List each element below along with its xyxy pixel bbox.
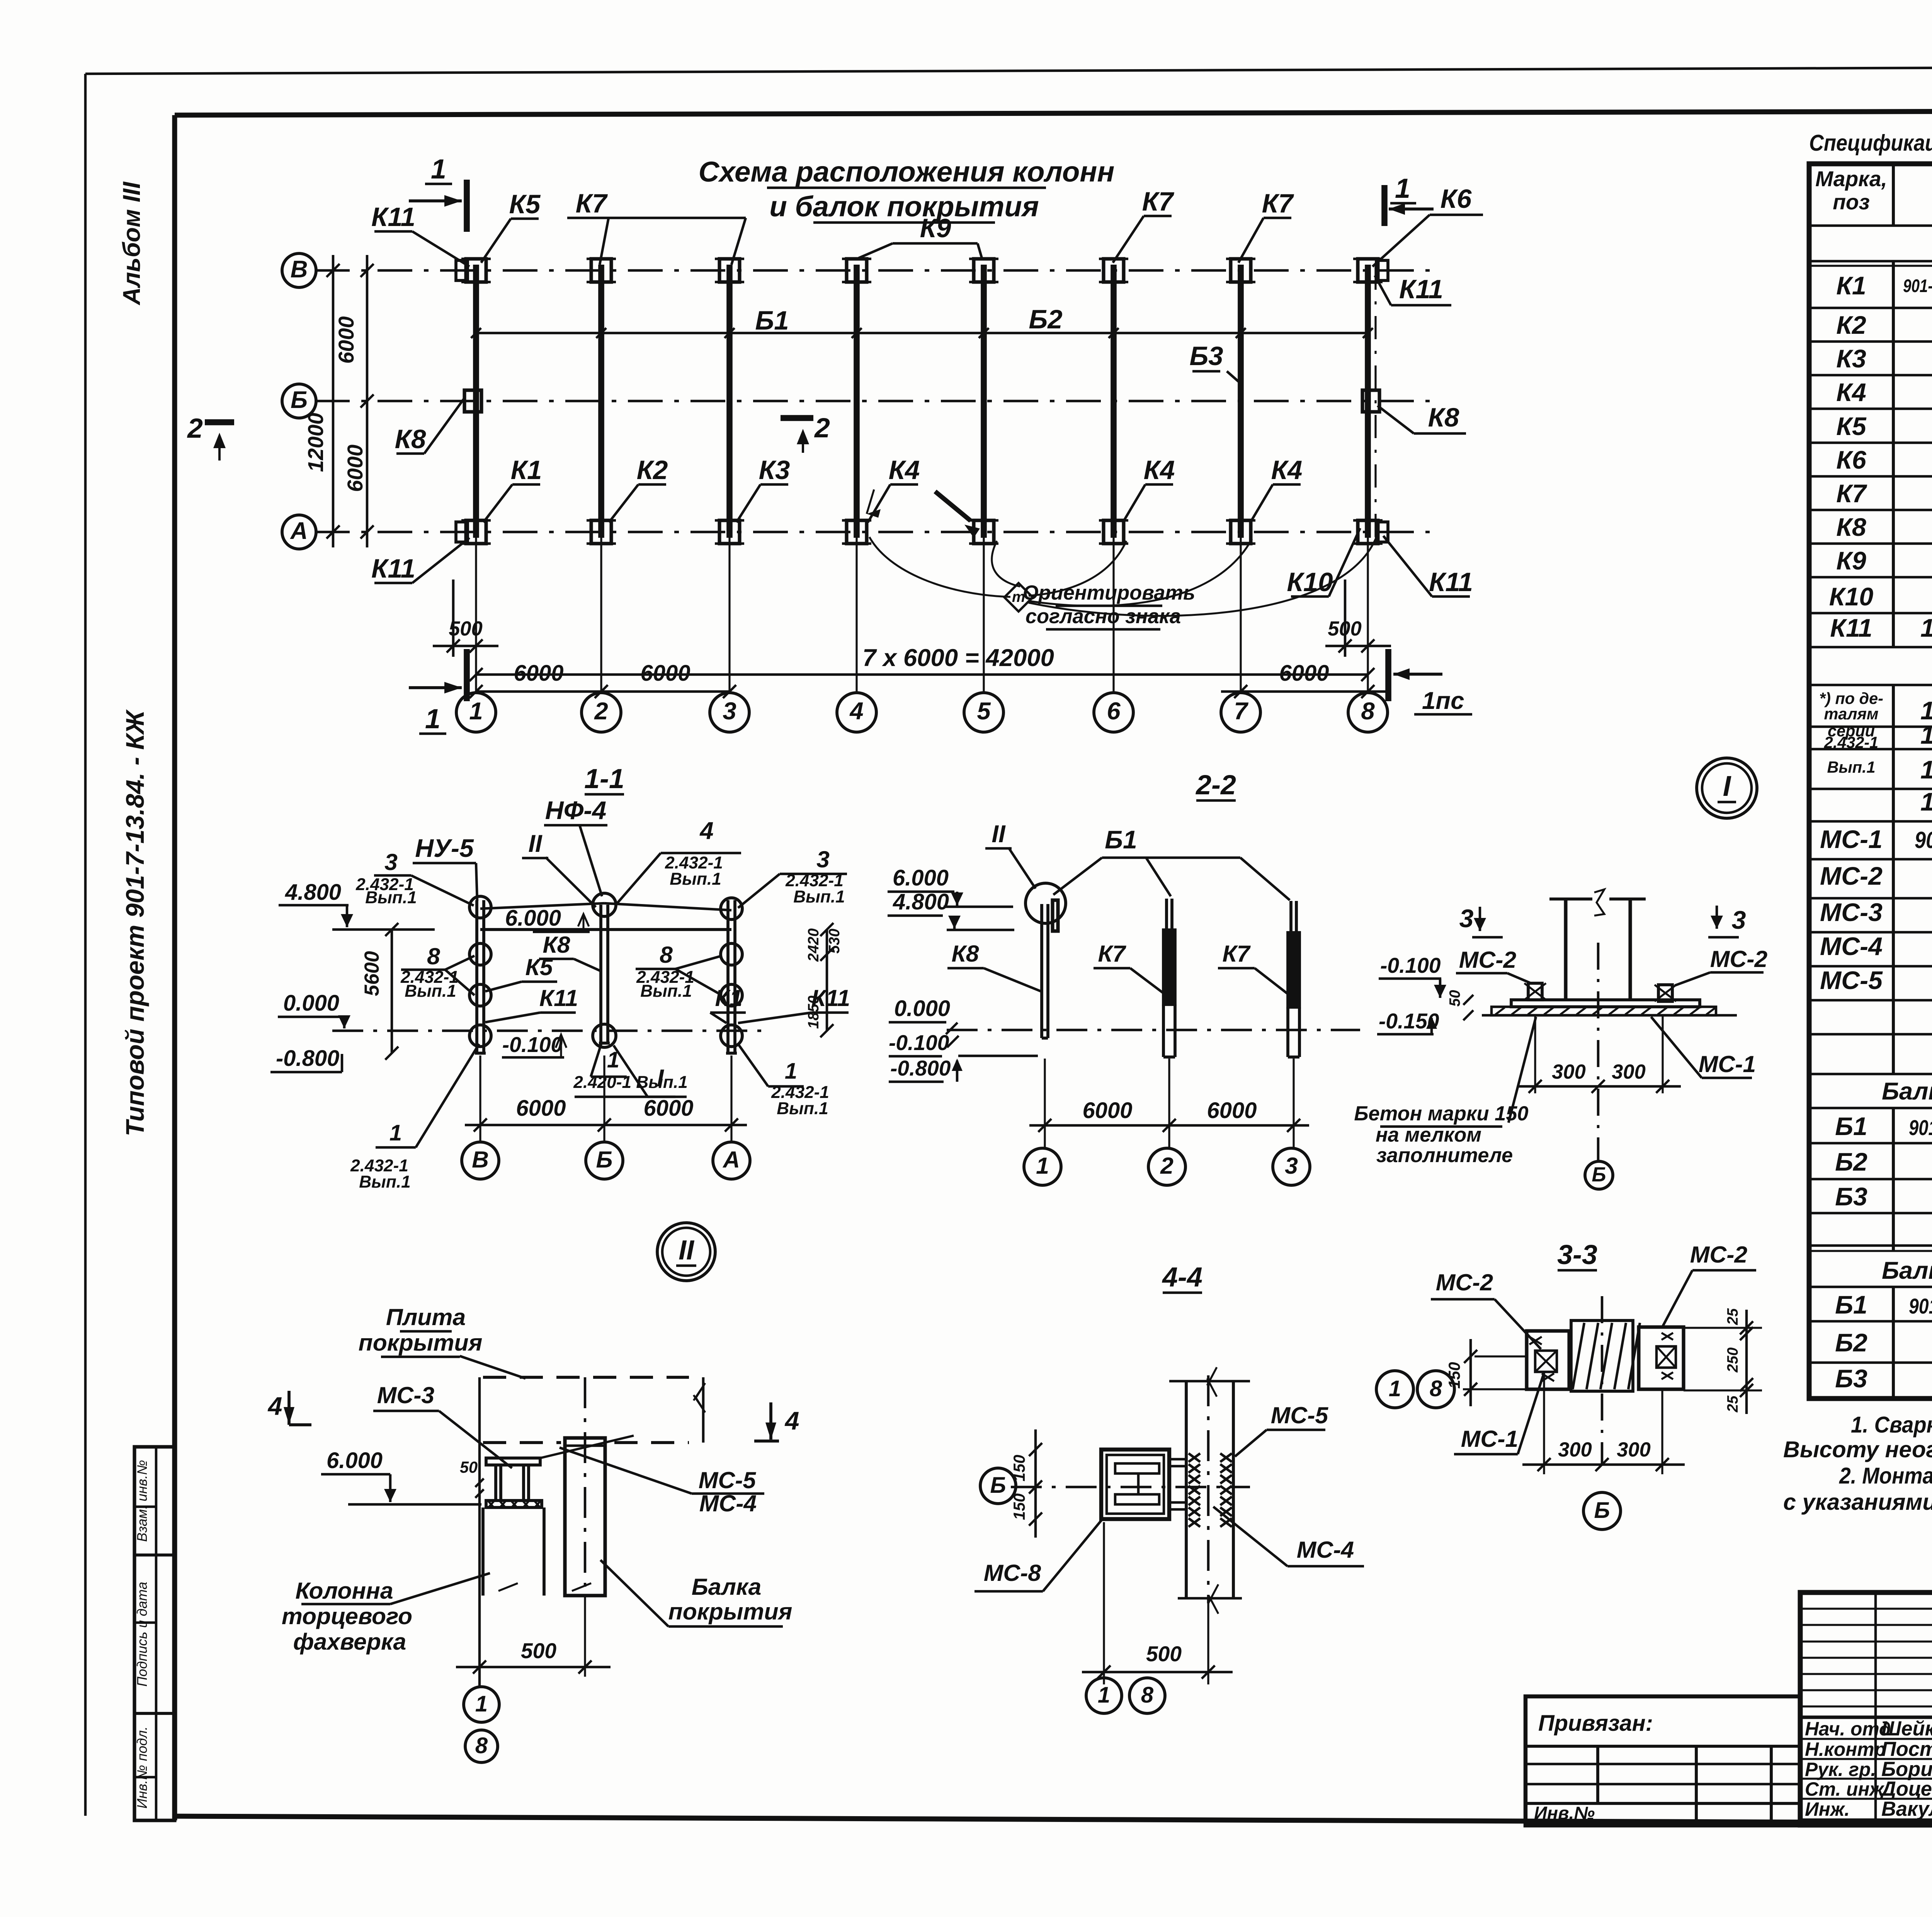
column symbol axis 1 row В xyxy=(466,259,486,282)
4-4 axis circles 1 8 xyxy=(1086,1678,1122,1713)
4-4 hatched column section xyxy=(1189,1453,1200,1462)
3-3 bottom: center hatched core xyxy=(1571,1320,1633,1391)
spec table grid xyxy=(1809,164,1932,1399)
column line axis 1 xyxy=(473,265,479,538)
svg-text:Вып.1: Вып.1 xyxy=(405,982,456,1001)
svg-text:II: II xyxy=(992,821,1006,848)
svg-text:Взам. инв.№: Взам. инв.№ xyxy=(134,1460,150,1542)
axis circle 1 xyxy=(475,538,477,693)
svg-text:Н.контр: Н.контр xyxy=(1805,1739,1886,1760)
section mark 1 top-right xyxy=(1381,185,1388,226)
fachwerk axis 1пс dash line right xyxy=(1374,267,1376,537)
column symbol axis 8 row В xyxy=(1358,259,1378,282)
svg-text:Б2: Б2 xyxy=(1835,1329,1867,1357)
svg-text:Б1: Б1 xyxy=(755,306,789,335)
svg-text:Бетон марки 150: Бетон марки 150 xyxy=(1354,1103,1528,1125)
axis circle Б bottom xyxy=(1583,1492,1621,1530)
column symbol axis 6 row А xyxy=(1104,520,1124,544)
anchor bolts МС-2 xyxy=(1528,983,1542,1000)
svg-text:Спецификация элементов к схеме: Спецификация элементов к схеме расположе… xyxy=(1809,130,1932,156)
column symbol axis 3 row В xyxy=(719,259,740,282)
svg-text:Вып.1: Вып.1 xyxy=(777,1099,828,1118)
svg-text:МС-5: МС-5 xyxy=(1271,1402,1329,1428)
axis row А line xyxy=(315,531,1430,534)
axis row В line xyxy=(315,269,1430,272)
svg-text:Инв.№: Инв.№ xyxy=(1534,1803,1595,1823)
column line axis 8 xyxy=(1365,265,1371,538)
4-4 axis line xyxy=(1011,1486,1250,1489)
svg-text:К7: К7 xyxy=(1262,189,1294,218)
svg-text:1.439-2: 1.439-2 xyxy=(1920,721,1932,749)
section mark 1 bottom-left xyxy=(464,649,470,701)
svg-text:фахверка: фахверка xyxy=(293,1628,406,1655)
svg-text:300: 300 xyxy=(1558,1439,1592,1461)
second column mark axis8 row А xyxy=(1376,522,1388,542)
svg-text:Балки покрытия для: Балки покрытия для xyxy=(1882,1078,1932,1105)
svg-text:6000: 6000 xyxy=(1207,1098,1257,1123)
svg-text:500: 500 xyxy=(521,1639,556,1663)
svg-text:Б1: Б1 xyxy=(1105,826,1137,854)
section 2-2 column axis 1 xyxy=(1040,904,1043,1038)
svg-text:5: 5 xyxy=(977,698,991,725)
svg-text:901-7-13.84 -КЖИ-Б1,Б2,Б3: 901-7-13.84 -КЖИ-Б1,Б2,Б3 xyxy=(1909,1294,1932,1318)
svg-text:1: 1 xyxy=(1098,1683,1110,1708)
svg-text:Б3: Б3 xyxy=(1835,1365,1867,1393)
svg-text:МС-4: МС-4 xyxy=(1297,1536,1354,1563)
2-2 ground line xyxy=(947,1029,1360,1032)
svg-text:Вып.1: Вып.1 xyxy=(793,887,845,906)
svg-text:К8: К8 xyxy=(951,940,979,967)
svg-text:4.800: 4.800 xyxy=(893,890,949,914)
axis circle 5 xyxy=(983,538,985,693)
dims 300 300 bottom xyxy=(1543,1373,1545,1474)
svg-text:1: 1 xyxy=(1389,1377,1401,1401)
2-2 dims xyxy=(1029,1124,1309,1127)
svg-text:Высоту неоговоренных сварных ш: Высоту неоговоренных сварных швов принят… xyxy=(1783,1436,1932,1462)
svg-text:150: 150 xyxy=(1010,1493,1028,1520)
dim total 42000 xyxy=(476,713,1368,714)
column line axis 6 xyxy=(1111,265,1117,538)
dim 500 axis1 xyxy=(452,580,455,657)
axis circle 4 xyxy=(855,538,857,693)
4-4 column band xyxy=(1185,1381,1188,1598)
svg-text:Типовой проект 901-7-13.84. -: Типовой проект 901-7-13.84. - КЖ xyxy=(121,709,150,1136)
axis circle 3 xyxy=(728,538,730,693)
svg-text:К11: К11 xyxy=(1830,614,1872,642)
svg-text:150: 150 xyxy=(1010,1455,1028,1481)
svg-text:-0.100: -0.100 xyxy=(1380,953,1441,977)
svg-text:1-1: 1-1 xyxy=(584,763,624,794)
svg-text:Б: Б xyxy=(990,1473,1006,1498)
svg-text:3: 3 xyxy=(1459,904,1474,933)
svg-text:Привязан:: Привязан: xyxy=(1538,1711,1653,1736)
svg-text:3: 3 xyxy=(1285,1152,1298,1179)
4-4 MC-8 plate square xyxy=(1101,1450,1169,1519)
svg-text:0.000: 0.000 xyxy=(894,996,950,1021)
orientation note with diamond xyxy=(1004,583,1033,612)
svg-text:-0.800: -0.800 xyxy=(276,1046,339,1071)
column symbol axis 8 row А xyxy=(1358,520,1378,544)
svg-text:25: 25 xyxy=(1725,1308,1741,1325)
svg-text:8: 8 xyxy=(660,942,673,968)
svg-text:К1: К1 xyxy=(1836,272,1866,300)
svg-text:МС-8: МС-8 xyxy=(984,1560,1041,1586)
svg-text:талям: талям xyxy=(1824,705,1878,723)
section 1-1 roof line xyxy=(480,928,731,931)
svg-text:3: 3 xyxy=(723,698,736,725)
4-4 axis circle Б xyxy=(980,1468,1016,1504)
inner drawing frame xyxy=(175,110,1932,115)
svg-text:Б3: Б3 xyxy=(1189,341,1223,371)
column symbol axis 4 row А xyxy=(847,520,867,544)
svg-text:Схема расположения колонн: Схема расположения колонн xyxy=(699,156,1115,188)
svg-text:2. Монтаж железобетонных элеме: 2. Монтаж железобетонных элементов вести… xyxy=(1839,1463,1932,1489)
svg-text:901-7-13.84 -КЖИ-МС1: 901-7-13.84 -КЖИ-МС1 xyxy=(1915,827,1932,853)
column symbol axis 3 row А xyxy=(719,520,740,544)
column symbol axis 2 row В xyxy=(591,259,611,282)
beams line (Б1/Б2/Б3) xyxy=(476,332,1368,335)
svg-text:4.800: 4.800 xyxy=(285,880,341,905)
svg-text:Ст. инж: Ст. инж xyxy=(1805,1778,1884,1800)
section mark 2 middle xyxy=(781,415,813,421)
svg-text:Колонна: Колонна xyxy=(295,1577,393,1604)
svg-text:300: 300 xyxy=(1552,1061,1586,1083)
3-3 bottom: left bolt block xyxy=(1527,1331,1569,1389)
svg-text:500: 500 xyxy=(1146,1642,1182,1666)
axis circle Б xyxy=(282,384,316,418)
svg-text:Б2: Б2 xyxy=(1835,1148,1867,1176)
svg-text:4-4: 4-4 xyxy=(1162,1262,1202,1293)
margin table (inv numbers) xyxy=(134,1447,175,1820)
svg-text:К8: К8 xyxy=(1836,513,1866,542)
svg-text:Б1: Б1 xyxy=(1835,1112,1867,1141)
svg-text:Вакуленк.: Вакуленк. xyxy=(1881,1798,1932,1820)
svg-text:Плита: Плита xyxy=(386,1304,466,1330)
title block frame xyxy=(1800,1592,1932,1825)
svg-text:8: 8 xyxy=(1430,1377,1442,1401)
svg-text:6000: 6000 xyxy=(343,444,367,492)
column symbol axis 4 row В xyxy=(847,259,867,282)
svg-text:2: 2 xyxy=(594,698,608,725)
svg-text:Борисенко: Борисенко xyxy=(1881,1758,1932,1781)
svg-text:6.000: 6.000 xyxy=(893,866,949,891)
svg-text:-0.800: -0.800 xyxy=(890,1056,951,1080)
svg-text:К4: К4 xyxy=(1144,455,1175,485)
svg-text:7 х 6000 = 42000: 7 х 6000 = 42000 xyxy=(862,644,1054,671)
svg-text:К4: К4 xyxy=(1836,378,1866,407)
column symbol axis 6 row В xyxy=(1104,259,1124,282)
svg-text:К5: К5 xyxy=(509,189,541,219)
svg-text:6.000: 6.000 xyxy=(505,906,561,931)
second column mark axis1 row В xyxy=(456,260,468,280)
column line axis 3 xyxy=(726,265,733,538)
right dims 25 250 25 xyxy=(1745,1310,1748,1414)
svg-text:Б: Б xyxy=(291,387,308,413)
beam stub at axis 1 xyxy=(1053,900,1058,931)
svg-text:К5: К5 xyxy=(1836,412,1867,441)
section 1-1 ground line xyxy=(332,1030,769,1032)
svg-text:2: 2 xyxy=(1160,1152,1173,1179)
svg-text:Альбом III: Альбом III xyxy=(118,181,145,306)
svg-text:К11: К11 xyxy=(1429,567,1473,597)
column symbol axis 7 row А xyxy=(1231,520,1251,544)
svg-text:1.439-2: 1.439-2 xyxy=(1920,756,1932,784)
svg-text:К7: К7 xyxy=(576,189,608,218)
svg-text:В: В xyxy=(472,1146,489,1173)
svg-text:торцевого: торцевого xyxy=(282,1603,412,1629)
break marks on column bottoms xyxy=(498,1583,518,1591)
beam of roof xyxy=(565,1438,605,1596)
svg-text:К7: К7 xyxy=(1222,940,1251,967)
svg-text:50: 50 xyxy=(1447,990,1463,1006)
svg-text:Вып.1: Вып.1 xyxy=(365,888,417,907)
section 1-1 weld circles xyxy=(469,896,491,918)
axis circle 7 xyxy=(1240,538,1242,693)
svg-text:-0.100: -0.100 xyxy=(502,1033,563,1057)
svg-text:Подпись и дата: Подпись и дата xyxy=(134,1582,150,1686)
column symbol axis 5 row А xyxy=(974,520,994,544)
svg-text:1: 1 xyxy=(469,698,483,725)
svg-text:НФ-4: НФ-4 xyxy=(545,796,606,825)
dim 500 bottom xyxy=(584,1596,586,1677)
svg-text:I: I xyxy=(1723,770,1731,802)
svg-text:Б: Б xyxy=(1594,1498,1610,1523)
fachwerk column symbol axis 8 row Б xyxy=(1362,390,1379,412)
svg-text:на мелком: на мелком xyxy=(1376,1124,1481,1146)
orientation leader curves xyxy=(869,537,1010,597)
section 2-2 column axis 3 xyxy=(1289,901,1293,933)
axis circle А xyxy=(282,515,316,549)
section 2-2 column axis 2 xyxy=(1165,899,1168,930)
svg-text:МС-5: МС-5 xyxy=(699,1467,757,1493)
svg-text:6000: 6000 xyxy=(334,316,358,364)
svg-text:2420: 2420 xyxy=(805,928,822,962)
svg-text:МС-3: МС-3 xyxy=(1820,898,1883,927)
svg-text:покрытия: покрытия xyxy=(668,1598,793,1625)
svg-text:250: 250 xyxy=(1725,1347,1741,1373)
svg-text:МС-2: МС-2 xyxy=(1820,862,1883,891)
svg-text:6000: 6000 xyxy=(1083,1098,1133,1123)
svg-text:А: А xyxy=(722,1146,740,1173)
svg-text:К8: К8 xyxy=(395,424,426,454)
left vertical dimension 12000 xyxy=(332,255,335,547)
svg-text:МС-1: МС-1 xyxy=(1461,1426,1518,1452)
dim row 6000s xyxy=(476,690,730,693)
4-4 dim 500 xyxy=(1103,1522,1105,1684)
svg-text:1.439-2: 1.439-2 xyxy=(1920,788,1932,816)
1 8 circles xyxy=(1376,1371,1413,1408)
svg-text:II: II xyxy=(528,830,543,857)
fachwerk column symbol axis 1 row Б xyxy=(464,390,481,412)
svg-text:530: 530 xyxy=(826,928,843,953)
column symbol axis 5 row В xyxy=(974,259,994,282)
svg-text:поз: поз xyxy=(1833,190,1870,214)
axis row Б line xyxy=(315,400,1430,403)
svg-text:3: 3 xyxy=(1732,906,1746,935)
axis circle 6 xyxy=(1112,538,1114,693)
column symbol axis 2 row А xyxy=(591,520,611,544)
2-2 top circle xyxy=(1026,883,1066,923)
column symbol axis 7 row В xyxy=(1231,259,1251,282)
section mark 2 left xyxy=(205,419,234,425)
МС-3 bolt assembly xyxy=(486,1458,540,1465)
svg-text:4: 4 xyxy=(699,817,713,845)
svg-text:К3: К3 xyxy=(1836,345,1866,373)
axis circle 2 xyxy=(600,538,602,693)
3-3 bottom centre axis xyxy=(1601,1296,1604,1465)
svg-text:1: 1 xyxy=(1036,1152,1049,1179)
svg-text:Б: Б xyxy=(1592,1164,1606,1186)
узел I big circle xyxy=(1697,758,1757,818)
3-3 bottom: right bolt block xyxy=(1639,1327,1684,1389)
svg-text:МС-2: МС-2 xyxy=(1436,1269,1493,1295)
svg-text:8: 8 xyxy=(475,1733,488,1758)
svg-text:Вып.1: Вып.1 xyxy=(640,982,692,1001)
axis line 1 vertical xyxy=(478,1377,481,1687)
svg-text:1: 1 xyxy=(785,1059,797,1084)
svg-text:Доценко: Доценко xyxy=(1880,1778,1932,1800)
svg-text:К1: К1 xyxy=(511,455,542,485)
svg-text:Балка: Балка xyxy=(692,1574,762,1600)
svg-text:К9: К9 xyxy=(1836,547,1866,575)
svg-text:Б: Б xyxy=(596,1146,613,1173)
svg-text:и балок покрытия: и балок покрытия xyxy=(769,190,1039,223)
4-4 dims 150/150 xyxy=(1034,1429,1037,1538)
svg-text:К4: К4 xyxy=(1271,455,1303,485)
slanted connect plate xyxy=(540,1436,634,1458)
svg-text:3: 3 xyxy=(384,849,398,875)
section mark 1 top-left xyxy=(464,180,470,232)
svg-text:7: 7 xyxy=(1234,698,1248,725)
uzel II dashed slab xyxy=(483,1376,689,1379)
svg-text:К7: К7 xyxy=(1142,187,1175,216)
svg-text:с указаниями серии 1.423-3, 46: с указаниями серии 1.423-3, 460-75, 1.46… xyxy=(1783,1489,1932,1515)
svg-text:4: 4 xyxy=(784,1407,799,1435)
section 1-1 dims 6000 xyxy=(465,1124,747,1127)
svg-text:Шейко: Шейко xyxy=(1881,1718,1932,1740)
svg-text:6.000: 6.000 xyxy=(327,1448,383,1473)
svg-text:МС-2: МС-2 xyxy=(1690,1241,1748,1268)
svg-text:К11: К11 xyxy=(539,985,578,1011)
svg-text:1850: 1850 xyxy=(805,996,822,1029)
axis circle В xyxy=(282,253,316,287)
svg-text:2-2: 2-2 xyxy=(1195,770,1236,800)
svg-text:2.432-1: 2.432-1 xyxy=(1824,734,1878,751)
column symbol axis 1 row А xyxy=(466,520,486,544)
svg-text:Вып.1: Вып.1 xyxy=(670,870,721,889)
svg-text:1.439-2: 1.439-2 xyxy=(1920,614,1932,642)
svg-text:К4: К4 xyxy=(889,455,920,485)
svg-text:МС-2: МС-2 xyxy=(1710,946,1768,972)
axis circles 1/8 xyxy=(464,1687,499,1722)
svg-text:1: 1 xyxy=(475,1692,488,1716)
svg-text:Постников: Постников xyxy=(1881,1738,1932,1761)
svg-text:1: 1 xyxy=(1395,173,1410,204)
svg-text:МС-3: МС-3 xyxy=(377,1382,435,1408)
weld x marks xyxy=(488,1501,494,1507)
svg-text:МС-5: МС-5 xyxy=(1820,966,1883,995)
svg-text:Нач. отд: Нач. отд xyxy=(1805,1718,1891,1740)
2-2 axis circles xyxy=(1044,1059,1046,1148)
outer sheet border xyxy=(85,66,1932,74)
svg-text:покрытия: покрытия xyxy=(359,1329,483,1356)
4-4 stub plates xyxy=(1169,1459,1186,1466)
left vertical dimension 6000+6000 xyxy=(366,255,369,547)
svg-text:К3: К3 xyxy=(759,455,790,485)
svg-text:Б3: Б3 xyxy=(1835,1183,1867,1211)
svg-text:4: 4 xyxy=(849,698,863,725)
svg-text:К6: К6 xyxy=(1440,184,1472,214)
svg-text:Вып.1: Вып.1 xyxy=(1827,758,1875,776)
dim 300 300 xyxy=(1534,1014,1536,1093)
svg-text:К2: К2 xyxy=(1836,311,1866,340)
svg-text:К9: К9 xyxy=(920,213,951,243)
second column mark axis1 row А xyxy=(456,522,468,542)
svg-text:К5: К5 xyxy=(525,954,553,980)
svg-text:Рук. гр.: Рук. гр. xyxy=(1805,1759,1876,1780)
svg-text:В: В xyxy=(291,256,308,283)
svg-text:6000: 6000 xyxy=(644,1096,694,1121)
svg-text:1: 1 xyxy=(431,154,446,185)
svg-text:5600: 5600 xyxy=(361,951,383,996)
dim 5600 xyxy=(391,930,393,1053)
svg-text:К11: К11 xyxy=(1399,274,1443,304)
node I top column lines xyxy=(1549,897,1592,901)
svg-text:К8: К8 xyxy=(1428,403,1459,432)
svg-text:II: II xyxy=(679,1235,695,1266)
right stacked dims xyxy=(826,930,828,1031)
svg-text:1. Сварку элементов производит: 1. Сварку элементов производить электрод… xyxy=(1851,1412,1932,1438)
svg-text:МС-2: МС-2 xyxy=(1459,947,1517,973)
svg-text:0.000: 0.000 xyxy=(283,991,339,1016)
svg-text:12000: 12000 xyxy=(304,413,328,472)
svg-text:8: 8 xyxy=(427,943,440,969)
svg-text:Б2: Б2 xyxy=(1029,304,1062,334)
svg-text:Марка,: Марка, xyxy=(1815,167,1887,191)
svg-text:К7: К7 xyxy=(1836,479,1867,508)
svg-text:1: 1 xyxy=(389,1121,402,1145)
svg-text:К1: К1 xyxy=(715,985,742,1011)
svg-text:3-3: 3-3 xyxy=(1557,1239,1597,1270)
svg-text:Инв.№ подл.: Инв.№ подл. xyxy=(134,1727,150,1809)
svg-text:1пс: 1пс xyxy=(1422,687,1464,714)
second column mark axis8 row В xyxy=(1376,260,1388,280)
svg-text:НУ-5: НУ-5 xyxy=(415,834,474,863)
svg-text:2: 2 xyxy=(814,413,830,444)
svg-text:I: I xyxy=(657,1065,664,1092)
axis circle 8 xyxy=(1367,538,1369,693)
svg-text:Б1: Б1 xyxy=(1835,1291,1867,1319)
column line axis 2 xyxy=(598,265,604,538)
privyazan block xyxy=(1526,1696,1800,1825)
fachwerk column body xyxy=(481,1507,485,1596)
node I plate xyxy=(1511,1000,1700,1007)
dim 150 xyxy=(1469,1339,1472,1406)
svg-text:К6: К6 xyxy=(1836,446,1867,474)
svg-text:150: 150 xyxy=(1446,1362,1463,1388)
svg-text:50: 50 xyxy=(460,1458,478,1476)
svg-text:К11: К11 xyxy=(371,202,415,232)
svg-text:6000: 6000 xyxy=(516,1096,566,1121)
svg-text:А: А xyxy=(290,518,308,544)
svg-text:К11: К11 xyxy=(371,554,415,583)
column line axis 5 xyxy=(981,265,987,538)
node I columns xyxy=(1564,899,1567,1000)
svg-text:2: 2 xyxy=(187,413,203,444)
svg-text:1: 1 xyxy=(425,704,440,734)
axis circle Б xyxy=(1585,1161,1613,1189)
svg-text:25: 25 xyxy=(1725,1395,1741,1412)
